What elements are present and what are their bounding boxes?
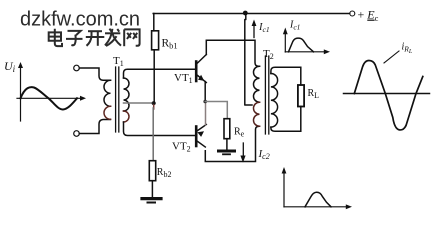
ic1 half-sine	[289, 38, 314, 52]
transformer T2 secondary coil	[271, 74, 278, 128]
transformer T1 core	[116, 67, 119, 132]
transformer T1 secondary coil	[124, 78, 130, 111]
iRL waveform	[354, 60, 423, 129]
wire: Rb1 down to bias node	[153, 50, 155, 103]
svg-text:Ic1: Ic1	[258, 22, 270, 34]
node: junction dot on rail	[243, 11, 248, 16]
char 发	[105, 29, 121, 46]
resistor Rb1	[152, 31, 159, 50]
inset plot ic1: axes	[283, 28, 330, 55]
svg-text:Rb2: Rb2	[157, 167, 172, 179]
input terminal top	[74, 65, 80, 71]
node: emitter junction	[203, 100, 207, 104]
node: bias junction dot	[152, 101, 156, 105]
svg-text:+ Ec: + Ec	[358, 8, 379, 23]
svg-text:RL: RL	[308, 88, 320, 100]
wire: VT2 emitter up to emitter junction (gray)	[205, 103, 207, 125]
current arrow Ic1 (up)	[253, 24, 255, 38]
wire: rail to Rb1	[153, 14, 155, 31]
transistor VT2	[196, 125, 206, 148]
svg-text:VT2: VT2	[172, 141, 191, 154]
wire: top terminal to T1 primary	[79, 68, 110, 80]
svg-text:Ic1: Ic1	[289, 20, 300, 32]
input source plot: U_i axis	[17, 62, 86, 121]
current arrow Ic2 (down)	[242, 143, 244, 157]
wire: T1 secondary top to VT1 base	[124, 69, 195, 78]
char 电	[49, 29, 62, 46]
ground (Re)	[219, 150, 235, 153]
wire: VT2 collector down, right, up to T2 primary bottom	[205, 126, 259, 161]
svg-text:dzkfw.com.cn: dzkfw.com.cn	[20, 8, 140, 30]
top supply rail	[153, 13, 349, 15]
char 子	[66, 31, 83, 45]
resistor Rb2	[149, 161, 155, 181]
Ui sine wave	[21, 87, 78, 109]
ground (Rb2)	[142, 197, 161, 200]
ic2 half-sine	[305, 192, 331, 207]
transistor VT1	[196, 55, 206, 83]
wire: bias node down to Rb2	[153, 105, 155, 109]
svg-text:Re: Re	[234, 127, 245, 139]
wire: T2 secondary bottom to RL	[271, 107, 301, 132]
transformer T2 primary coil (lower half)	[254, 102, 260, 126]
wire: emitter junction to Re (gray)	[205, 102, 227, 119]
transformer T2 primary coil (upper half)	[254, 66, 260, 102]
wire: T2 secondary top to RL	[271, 67, 301, 85]
transformer T2 core	[265, 56, 268, 134]
resistor Re	[224, 119, 230, 139]
char 开	[86, 31, 105, 46]
inset plot ic2: axes	[282, 167, 352, 209]
iRL callout line	[384, 51, 399, 63]
wire: bottom terminal to T1 primary	[79, 120, 110, 134]
wire: +Ec feed down to T2 center tap	[245, 14, 252, 106]
svg-text:iRL: iRL	[402, 42, 413, 56]
svg-text:Ic2: Ic2	[258, 148, 270, 161]
wire: Re to ground	[226, 139, 228, 150]
svg-text:T1: T1	[113, 55, 124, 68]
wire: T1 secondary bottom to VT2 base	[124, 122, 195, 136]
svg-text:Rb1: Rb1	[162, 38, 178, 51]
resistor RL	[298, 85, 304, 107]
wire: Rb2 to ground	[151, 181, 153, 197]
svg-text:VT1: VT1	[174, 72, 193, 85]
wire: T1 center tap to bias node (gray)	[124, 102, 154, 104]
watermark chinese 电子开发网 (drawn strokes)	[49, 29, 140, 47]
input terminal bottom	[74, 131, 80, 137]
char 网	[124, 29, 139, 46]
output plot iRL: axis	[344, 93, 430, 95]
svg-text:T2: T2	[263, 48, 274, 61]
Ui vertical axis	[20, 65, 22, 121]
svg-text:Ui: Ui	[4, 59, 16, 74]
wire: VT1 collector up and right to T2 primary top	[206, 40, 259, 66]
transformer T1 primary coil	[104, 80, 111, 106]
wire: VT1 emitter down to emitter junction	[204, 82, 206, 102]
Ui horizontal axis	[17, 97, 82, 99]
terminal +Ec circle	[350, 11, 355, 16]
